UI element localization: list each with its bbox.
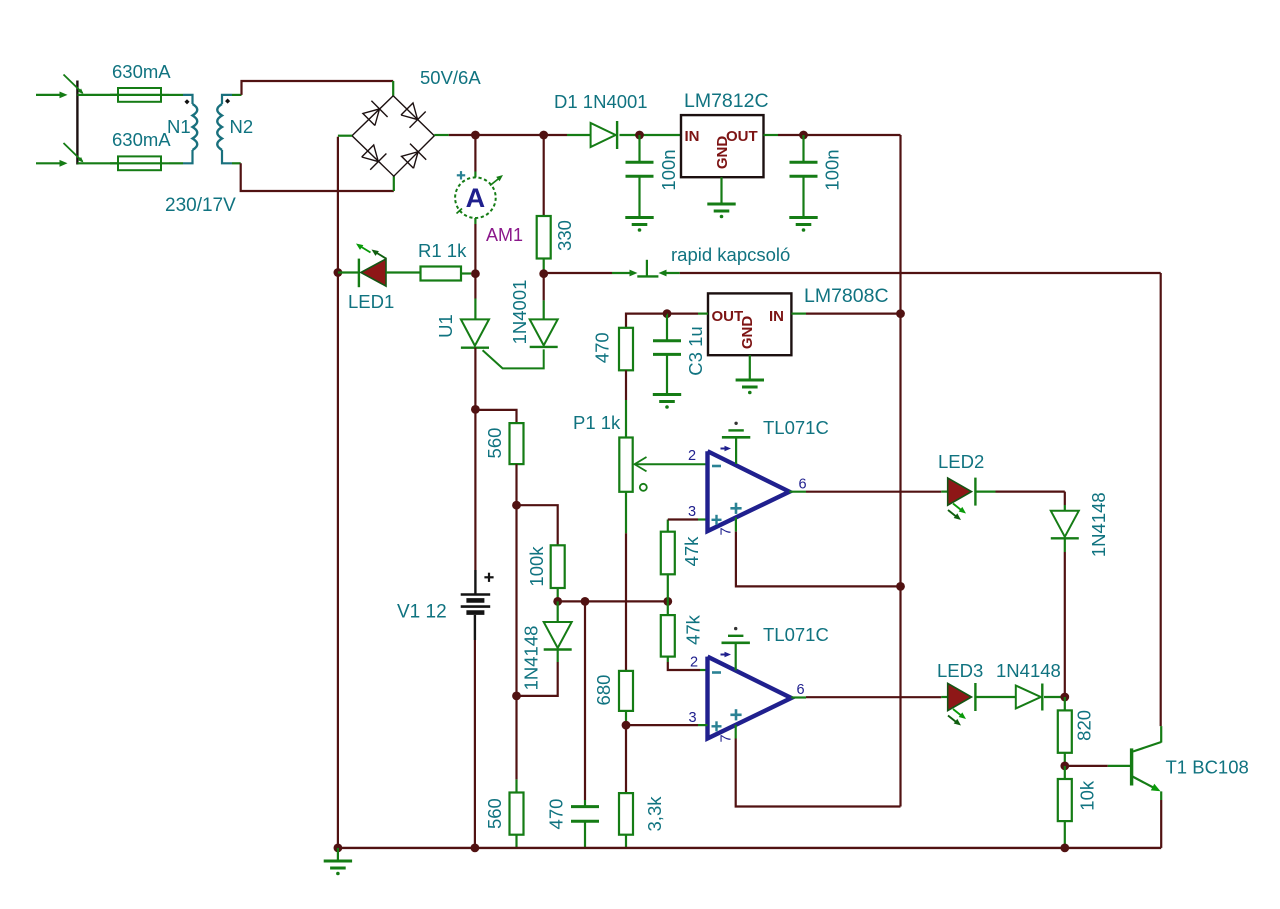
svg-text:100n: 100n bbox=[821, 149, 842, 190]
wire N2 bottom to bridge bottom bbox=[232, 162, 241, 164]
junction dot 330 top bbox=[539, 131, 548, 140]
svg-text:TL071C: TL071C bbox=[763, 417, 829, 438]
wire OUT node to R470 bbox=[626, 314, 667, 328]
thyristor U1 bbox=[461, 319, 489, 345]
svg-text:560: 560 bbox=[484, 798, 505, 829]
svg-text:470: 470 bbox=[546, 799, 567, 830]
wire U4 output bbox=[789, 491, 806, 493]
wire R470 to P1 bbox=[625, 370, 627, 400]
svg-text:820: 820 bbox=[1074, 710, 1095, 741]
capacitor C3 1u bbox=[666, 314, 668, 341]
wire right vertical supply rail bbox=[899, 135, 901, 807]
bridge diode upper-left bbox=[363, 109, 380, 126]
fuse F1 630mA bbox=[118, 88, 161, 102]
junction dot U4 pin7 rail bbox=[896, 582, 905, 591]
wire U3 IN to rail bbox=[791, 313, 806, 315]
junction dot pin3 node bbox=[622, 721, 631, 730]
svg-text:470: 470 bbox=[591, 332, 612, 363]
wire node to 100k bbox=[517, 505, 558, 545]
svg-text:V1 12: V1 12 bbox=[397, 602, 447, 623]
op-amp U4 TL071C (upper) bbox=[708, 451, 790, 531]
diode D5 1N4148 bbox=[1016, 686, 1041, 709]
wire R820 to base node bbox=[1064, 753, 1066, 766]
polarity dot N2 bbox=[225, 99, 230, 104]
wire 47k bottom to pin2 op2 bbox=[667, 657, 669, 662]
wire bridge right corner stub bbox=[434, 134, 449, 136]
wire R1 to junction bbox=[461, 272, 471, 274]
wire D1 to LM7812 IN bbox=[620, 134, 681, 136]
svg-text:2: 2 bbox=[690, 655, 698, 671]
U5 plus mark pin3 bbox=[712, 725, 722, 727]
svg-text:1N4148: 1N4148 bbox=[1088, 492, 1109, 557]
svg-text:LED2: LED2 bbox=[938, 451, 984, 472]
resistor 3,3k bbox=[619, 793, 633, 835]
junction dot base node bbox=[1060, 762, 1069, 771]
ground U3 bbox=[736, 379, 764, 382]
wire 100k to mid rail bbox=[557, 588, 559, 601]
wire pin3 node to R3k3 bbox=[625, 725, 627, 793]
LED LED1 bbox=[358, 259, 360, 288]
LED LED3 bbox=[941, 696, 947, 698]
resistor 47k (bottom) bbox=[661, 615, 675, 657]
svg-text:T1 BC108: T1 BC108 bbox=[1166, 757, 1249, 778]
svg-text:630mA: 630mA bbox=[112, 129, 171, 150]
AC input wire N (neutral) bbox=[36, 162, 63, 164]
wire mid rail to 47k bottom bbox=[667, 601, 669, 615]
junction dot U3 IN rail bbox=[896, 309, 905, 318]
wire P1 bottom down bbox=[625, 492, 627, 533]
wire U5 pin3 from node bbox=[630, 724, 698, 726]
svg-text:100n: 100n bbox=[658, 149, 679, 190]
svg-text:47k: 47k bbox=[681, 536, 702, 567]
wire junction to pushbutton bbox=[547, 272, 612, 274]
resistor 680 bbox=[619, 671, 633, 711]
ground C2 bbox=[789, 216, 817, 219]
U4 V+ power symbol bbox=[734, 422, 737, 425]
svg-text:P1 1k: P1 1k bbox=[573, 412, 621, 433]
svg-text:C3 1u: C3 1u bbox=[685, 326, 706, 375]
diode D2 1N4001 bbox=[530, 319, 558, 345]
U5 minus mark bbox=[712, 671, 721, 674]
LED1 emission arrows bbox=[359, 246, 371, 253]
wire 10k to ground rail bbox=[1064, 821, 1066, 848]
plus mark battery bbox=[484, 576, 493, 578]
resistor 47k (top) bbox=[661, 532, 675, 575]
bridge diode lower-left bbox=[362, 145, 379, 162]
svg-text:3: 3 bbox=[689, 710, 697, 726]
fuse F2 630mA bbox=[118, 156, 161, 170]
junction dot U3 OUT node bbox=[663, 309, 672, 318]
ground stub U2 GND bbox=[720, 177, 722, 204]
U4 plus mark inner bbox=[730, 507, 741, 510]
svg-text:TL071C: TL071C bbox=[763, 624, 829, 645]
resistor 560 (top) bbox=[510, 423, 524, 464]
svg-text:LED1: LED1 bbox=[348, 291, 394, 312]
wire R3k3 to ground rail bbox=[625, 835, 627, 848]
junction dot 820 node bbox=[1060, 693, 1069, 702]
battery V1 12 bbox=[461, 593, 491, 596]
resistor 560 (bottom) bbox=[510, 793, 524, 835]
svg-text:680: 680 bbox=[593, 675, 614, 706]
wire pushbutton to right rail bbox=[680, 272, 1161, 274]
svg-text:A: A bbox=[466, 183, 486, 213]
wire 47k top to pin3 bbox=[667, 520, 669, 532]
resistor R1 1k bbox=[421, 267, 462, 281]
U4 plus mark pin3 bbox=[712, 519, 722, 521]
wire battery bottom bbox=[474, 615, 476, 640]
LED LED2 bbox=[941, 491, 947, 493]
svg-text:100k: 100k bbox=[526, 546, 547, 587]
svg-text:R1 1k: R1 1k bbox=[418, 240, 467, 261]
switch blade bottom bbox=[64, 143, 83, 162]
ground C3 bbox=[653, 393, 681, 396]
wire mid rail to cap470 bbox=[584, 601, 586, 800]
svg-text:LED3: LED3 bbox=[937, 660, 983, 681]
resistor 330 bbox=[537, 216, 551, 259]
svg-text:10k: 10k bbox=[1077, 780, 1098, 811]
wire T1 collector to right rail bbox=[1160, 726, 1162, 742]
resistor 470 (top) bbox=[619, 328, 633, 371]
wire base node to T1 bbox=[1068, 765, 1108, 767]
transformer T1 primary winding N1 bbox=[183, 95, 193, 104]
junction dot U1 cathode node bbox=[471, 405, 480, 414]
wire U4 pin7 to rail bbox=[735, 518, 737, 532]
svg-text:N2: N2 bbox=[230, 116, 254, 137]
wire right rail vertical bbox=[1160, 273, 1162, 726]
svg-text:GND: GND bbox=[714, 136, 731, 170]
svg-text:6: 6 bbox=[797, 682, 805, 698]
svg-text:47k: 47k bbox=[683, 614, 704, 645]
transistor T1 BC108 bbox=[1130, 748, 1133, 785]
wire junction to U1 anode bbox=[474, 274, 476, 299]
svg-text:1N4148: 1N4148 bbox=[521, 626, 542, 691]
wire N2 top to bridge top bbox=[232, 94, 242, 96]
svg-text:7: 7 bbox=[719, 734, 735, 742]
resistor 100k bbox=[551, 545, 565, 588]
wire 560 line down bbox=[515, 505, 517, 779]
wire bridge to D1 bbox=[449, 134, 567, 136]
wire junction to D2 anode bbox=[543, 274, 545, 301]
wire U5 output bbox=[791, 696, 806, 698]
ground C1 bbox=[625, 216, 653, 219]
wire rail to ammeter bbox=[474, 135, 476, 172]
wire switch to fuse F2 bbox=[77, 162, 118, 164]
ground U2 bbox=[707, 203, 735, 206]
wire left rail vertical bbox=[337, 137, 339, 848]
junction dot ground left bbox=[334, 844, 343, 853]
bridge diode upper-right bbox=[401, 103, 418, 120]
wire R560 to node bbox=[515, 464, 517, 505]
regulator U2 LM7812C box bbox=[681, 115, 764, 177]
pushbutton rapid kapcsolo bbox=[630, 270, 638, 277]
wire R330 to junction bbox=[543, 259, 545, 274]
ammeter AM1 bbox=[455, 177, 496, 218]
LED2 emission arrows bbox=[953, 504, 963, 512]
op-amp U5 TL071C (lower) bbox=[708, 657, 792, 739]
junction dot 47k node bbox=[663, 597, 672, 606]
U5 plus mark inner bbox=[730, 713, 741, 716]
AC input wire L (phase) bbox=[36, 94, 63, 96]
svg-text:560: 560 bbox=[484, 428, 505, 459]
svg-text:7: 7 bbox=[719, 527, 735, 535]
svg-text:330: 330 bbox=[554, 220, 575, 251]
wire rail to R330 bbox=[543, 135, 545, 216]
junction dot D3 to 560 line bbox=[512, 692, 521, 701]
wire F2 to N1 bbox=[169, 162, 183, 164]
wire LM7812 OUT to right bbox=[764, 134, 779, 136]
svg-text:N1: N1 bbox=[167, 116, 191, 137]
junction dot cap470 top bbox=[581, 597, 590, 606]
wire ammeter to R1 junction bbox=[474, 218, 476, 224]
wire F1 to N1 bbox=[169, 94, 183, 96]
junction dot mid rail left bbox=[553, 597, 562, 606]
junction dot cap C2 top bbox=[799, 131, 808, 140]
capacitor 470 bbox=[571, 805, 599, 808]
junction dot cap C1 top bbox=[635, 131, 644, 140]
wire U3 OUT left bbox=[698, 313, 708, 315]
diode D1 1N4001 bbox=[591, 123, 616, 147]
svg-text:2: 2 bbox=[688, 448, 696, 464]
capacitor C2 100n bbox=[802, 135, 804, 162]
bridge diode lower-right bbox=[402, 152, 419, 169]
wire switch to fuse F1 bbox=[77, 94, 118, 96]
wire D4 to LED3 node bbox=[1064, 539, 1066, 552]
U5 internal arrow bbox=[721, 654, 728, 656]
wire D3 to 560 line bbox=[557, 650, 559, 662]
U4 minus mark bbox=[712, 465, 721, 468]
switch pole bar bbox=[76, 81, 78, 165]
junction dot ground battery bbox=[471, 844, 480, 853]
svg-text:50V/6A: 50V/6A bbox=[420, 67, 481, 88]
wire D5 to 820 node bbox=[1044, 696, 1065, 698]
svg-text:1N4001: 1N4001 bbox=[509, 280, 530, 345]
junction dot 100k node bbox=[512, 501, 521, 510]
svg-text:LM7812C: LM7812C bbox=[684, 90, 769, 112]
wire base node to 10k bbox=[1064, 766, 1066, 779]
switch blade top bbox=[64, 75, 83, 94]
svg-text:LM7808C: LM7808C bbox=[804, 285, 889, 307]
wire R680 to pin3 node bbox=[625, 711, 627, 725]
wire middle node rail bbox=[558, 600, 668, 602]
wire rail to LED1 bbox=[338, 271, 359, 273]
junction dot 10k ground bbox=[1060, 844, 1069, 853]
junction dot R1 right bbox=[471, 269, 480, 278]
plus mark ammeter bbox=[457, 174, 465, 176]
svg-text:IN: IN bbox=[769, 308, 784, 325]
svg-text:630mA: 630mA bbox=[112, 61, 171, 82]
LED3 emission arrows bbox=[953, 709, 963, 717]
svg-text:IN: IN bbox=[685, 128, 700, 145]
svg-text:D1 1N4001: D1 1N4001 bbox=[554, 91, 648, 112]
resistor 820 bbox=[1058, 710, 1072, 752]
junction dot LED1 anode rail bbox=[334, 268, 343, 277]
wire ground rail bbox=[338, 847, 1161, 849]
wire U5 pin7 to rail bbox=[735, 725, 737, 739]
svg-text:1N4148: 1N4148 bbox=[996, 660, 1061, 681]
wire T1 emitter down bbox=[1160, 791, 1162, 800]
capacitor C1 100n bbox=[638, 135, 640, 162]
junction dot switch node bbox=[539, 269, 548, 278]
wire U1 cathode down bbox=[474, 348, 476, 406]
svg-text:230/17V: 230/17V bbox=[165, 195, 236, 216]
diode D3 1N4148 bbox=[544, 622, 572, 648]
U4 internal arrow bbox=[721, 448, 728, 450]
wire 560 bottom to ground rail bbox=[515, 835, 517, 848]
svg-text:GND: GND bbox=[739, 316, 756, 350]
bridge rectifier diamond bbox=[352, 96, 434, 176]
svg-text:rapid kapcsoló: rapid kapcsoló bbox=[671, 244, 790, 265]
wire 47k top to mid rail bbox=[667, 574, 669, 601]
transformer T1 secondary winding N2 bbox=[222, 95, 232, 104]
wire node to 560 top bbox=[475, 410, 516, 423]
svg-text:AM1: AM1 bbox=[486, 225, 523, 245]
ground symbol main bbox=[337, 848, 339, 861]
svg-text:3,3k: 3,3k bbox=[644, 796, 665, 832]
ground stub U3 GND bbox=[749, 355, 751, 380]
svg-text:U1: U1 bbox=[435, 314, 456, 338]
polarity dot N1 bbox=[184, 99, 189, 104]
wire LED2 to D4 bbox=[996, 491, 1065, 493]
svg-text:3: 3 bbox=[688, 504, 696, 520]
regulator U3 LM7808C box bbox=[708, 293, 791, 355]
wire bridge left corner stub bbox=[338, 135, 352, 137]
svg-text:6: 6 bbox=[799, 477, 807, 493]
wire node to R820 bbox=[1064, 697, 1066, 710]
resistor 10k bbox=[1058, 779, 1072, 821]
wire battery top bbox=[474, 409, 476, 570]
AC input arrowhead L bbox=[60, 92, 68, 99]
wire mid rail to D3 bbox=[557, 601, 559, 622]
junction dot bridge output bbox=[471, 131, 480, 140]
diode D4 1N4148 bbox=[1051, 511, 1079, 537]
potentiometer P1 1k bbox=[619, 438, 632, 492]
AC input arrowhead N bbox=[60, 160, 68, 167]
U5 V+ power symbol bbox=[734, 627, 737, 630]
